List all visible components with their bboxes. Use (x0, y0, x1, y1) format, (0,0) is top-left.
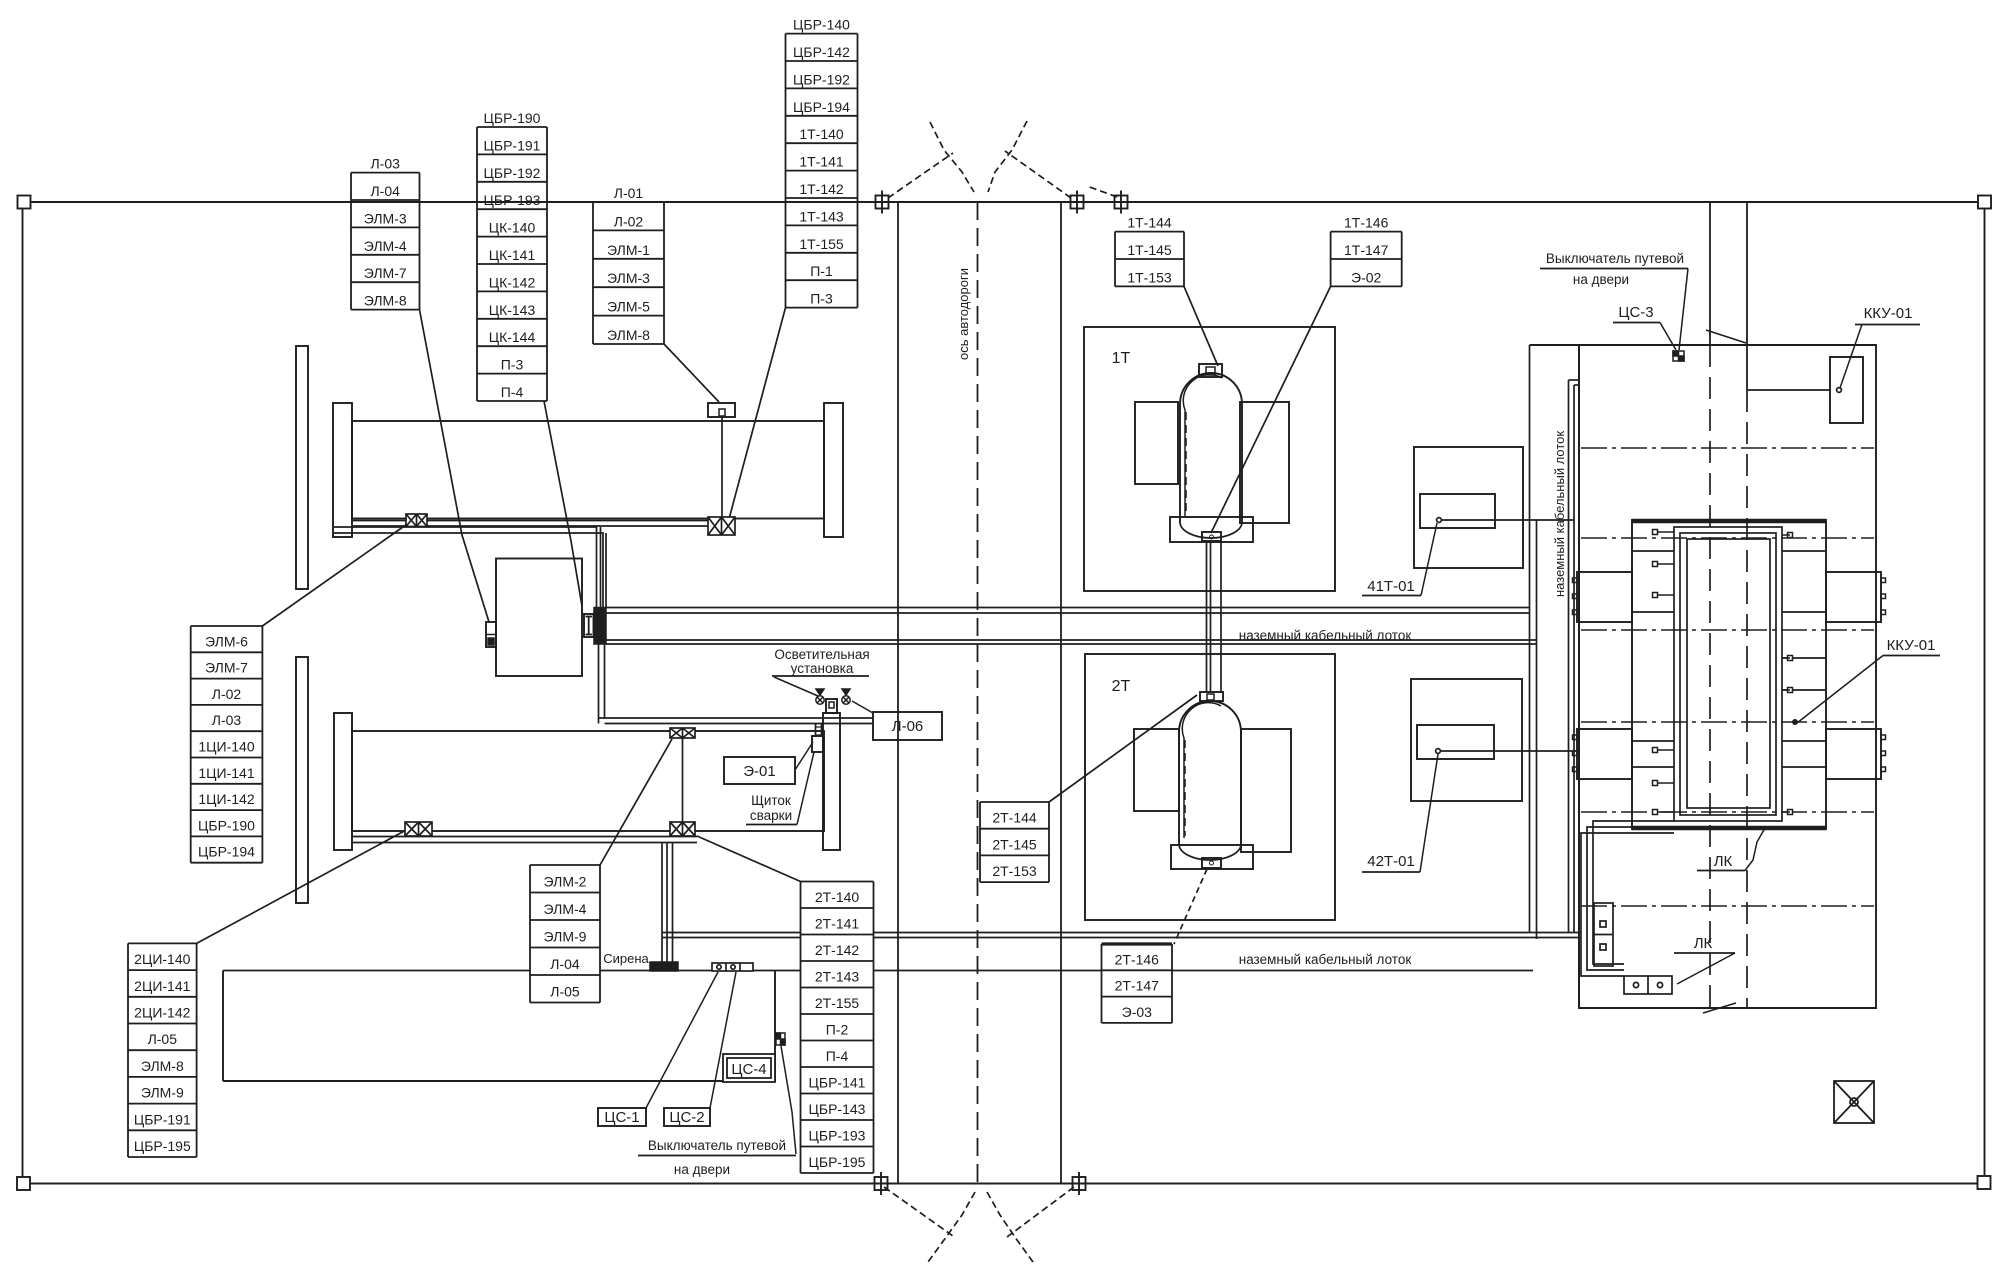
entry road edge right solid (1746, 202, 1748, 390)
lighting title underline (772, 675, 869, 677)
leader Л-06 (852, 701, 873, 713)
cable entry insert (584, 614, 594, 637)
svg-text:ЦС-3: ЦС-3 (1618, 304, 1653, 321)
valve V3 (405, 822, 432, 836)
KKU leader dot (1792, 719, 1798, 725)
ground tray G lower (662, 937, 1581, 939)
leader S10 to tank 1T base box (1211, 286, 1331, 533)
leader ЦС-3 (1660, 323, 1676, 351)
KKU sensor R3 (1782, 688, 1793, 693)
svg-text:П-3: П-3 (501, 357, 524, 373)
tray D riser left (598, 644, 600, 724)
KKU axis line 1 (1581, 447, 1874, 449)
KKU right box upper (1826, 572, 1881, 622)
KKU sensor L3 (1653, 593, 1675, 598)
svg-text:ЦБР-195: ЦБР-195 (809, 1154, 866, 1170)
cable entry insert cap1 (586, 616, 593, 618)
label box ЦС-1 (598, 1108, 646, 1126)
tank 2T vessel outline (1179, 701, 1241, 845)
tray under T2 upper (352, 836, 697, 838)
siren riser 1 (661, 843, 663, 963)
svg-text:ЦБР-193: ЦБР-193 (809, 1128, 866, 1144)
svg-text:ЦБР-194: ЦБР-194 (793, 99, 850, 115)
pump house left box divider (486, 634, 496, 636)
label ККУ-01 top underline (1855, 324, 1920, 326)
svg-text:1Т-143: 1Т-143 (799, 208, 844, 224)
svg-text:Л-05: Л-05 (550, 984, 580, 1000)
station 42T tap circle (1436, 749, 1441, 754)
cable list S3 (Л-01 group) (593, 202, 664, 344)
svg-text:П-4: П-4 (501, 384, 524, 400)
entry road edge left dashed (1709, 345, 1711, 1008)
svg-text:Сирена: Сирена (603, 951, 649, 966)
tank 2T vessel inner wall (1182, 703, 1221, 838)
svg-text:2Т-144: 2Т-144 (992, 810, 1037, 826)
svg-text:Э-03: Э-03 (1122, 1004, 1153, 1020)
site border right (1984, 209, 1986, 1176)
tray D drop to weld box b (821, 724, 823, 738)
border marker M5 (1068, 1172, 1091, 1195)
leader ККУ-01 right (1797, 656, 1883, 724)
svg-text:ЦБР-143: ЦБР-143 (809, 1101, 866, 1117)
junction box on T1 inner mark (719, 409, 725, 416)
KKU control box tap (1837, 388, 1842, 393)
svg-text:Л-01: Л-01 (614, 185, 644, 201)
leader S7 to valve V4 (600, 739, 672, 865)
site border top (31, 201, 1978, 203)
svg-text:ЦС-1: ЦС-1 (604, 1109, 639, 1126)
valve V2 (708, 517, 735, 535)
tank T2 left flange (334, 713, 352, 850)
svg-text:Л-04: Л-04 (550, 956, 580, 972)
wire 42T to building (1440, 750, 1579, 752)
cable list S12 background (1102, 944, 1173, 1023)
KKU sensor R4 (1782, 810, 1793, 815)
tray under T1 lower (352, 525, 722, 527)
tray T1-to-block line4 (605, 533, 607, 608)
KKU right box upper pin 2 (1881, 594, 1886, 599)
tank 1T right pad (1240, 402, 1289, 523)
cable list S8 (2Т-140 group) (801, 882, 874, 1174)
tank 2T base box (1202, 858, 1221, 868)
svg-text:2Т-143: 2Т-143 (815, 969, 860, 985)
cable list S6 (2ЦИ-140 group) (128, 943, 197, 1157)
border marker M3 (1110, 191, 1133, 214)
corner marker bottom-right (1978, 1176, 1991, 1189)
svg-text:1ЦИ-141: 1ЦИ-141 (198, 765, 254, 781)
tank 2T base box circle (1210, 861, 1214, 865)
svg-text:ЦБР-194: ЦБР-194 (198, 844, 255, 860)
border marker M1 (871, 191, 894, 214)
cable entry block (594, 608, 606, 645)
ground tray A upper (606, 607, 1530, 609)
road edge right (1060, 202, 1062, 1183)
svg-text:ЭЛМ-2: ЭЛМ-2 (544, 874, 587, 890)
KKU axis line 3 (1581, 629, 1874, 631)
KKU building outline (1530, 345, 1877, 1008)
entry road edge left solid (1709, 202, 1711, 345)
svg-text:2ЦИ-142: 2ЦИ-142 (134, 1005, 190, 1021)
ground tray B lower (606, 643, 1537, 645)
svg-text:ЛК: ЛК (1714, 853, 1733, 870)
svg-text:ККУ-01: ККУ-01 (1864, 305, 1913, 322)
label ЦС-3 underline (1613, 322, 1660, 324)
leader door switch top (1679, 269, 1688, 351)
KKU left box upper pin 1 (1573, 578, 1578, 583)
KKU axis line 6 (1581, 905, 1874, 907)
label 42T-01 underline (1362, 871, 1420, 873)
svg-text:Л-05: Л-05 (148, 1031, 178, 1047)
tank 2T gauge dashed (1184, 740, 1186, 836)
KKU axis line 2 (1581, 537, 1874, 539)
siren riser 2 (666, 843, 668, 963)
KKU building left edge (1578, 345, 1580, 1008)
site border bottom (30, 1183, 1978, 1185)
stem V4-V5 (682, 738, 684, 822)
svg-text:Л-02: Л-02 (614, 213, 644, 229)
svg-text:наземный кабельный лоток: наземный кабельный лоток (1239, 628, 1412, 643)
wire 41T to trunk (1441, 519, 1574, 521)
road axis dashed (977, 202, 979, 1183)
cable list S1 (Л-03 group) (351, 173, 420, 310)
KKU right box lower (1826, 729, 1881, 779)
leader S6 to valve V3 (197, 829, 408, 943)
svg-text:ЦБР-195: ЦБР-195 (134, 1138, 191, 1154)
cable list S7 background (530, 865, 600, 1003)
svg-text:1Т-153: 1Т-153 (1127, 269, 1172, 285)
svg-text:ЦБР-190: ЦБР-190 (198, 817, 255, 833)
leader S1 to pump house box (420, 310, 490, 622)
lighting fixture base (826, 699, 837, 713)
KKU control box (1830, 357, 1863, 423)
tank 2T left pad (1134, 729, 1179, 811)
cable list S8 background (801, 882, 874, 1174)
tray T1-to-block inner (334, 533, 603, 608)
svg-text:ЦБР-192: ЦБР-192 (793, 71, 850, 87)
leader Э-01 (795, 742, 813, 770)
switch box CS1-CS2 (712, 963, 753, 971)
trunk tray b (1536, 520, 1538, 939)
tank 1T dome box (1199, 364, 1222, 377)
lower building bottom (223, 1080, 775, 1082)
svg-text:установка: установка (791, 661, 854, 676)
leader ЛК 1 (1745, 828, 1765, 871)
road leader top M3 (1087, 186, 1117, 197)
KKU right box upper pin 1 (1881, 578, 1886, 583)
lighting fixture base mark (829, 702, 834, 708)
trunk tray a (1529, 345, 1531, 933)
svg-text:ЭЛМ-8: ЭЛМ-8 (607, 327, 650, 343)
leader door switch to text (781, 1046, 796, 1154)
building 2T (1085, 654, 1335, 920)
leader S11 to tank 2T dome box (1049, 695, 1197, 802)
station 41T outer (1414, 447, 1523, 568)
wall bar 1 (296, 346, 308, 589)
tank T2 body (352, 731, 824, 831)
svg-text:2Т-146: 2Т-146 (1115, 951, 1160, 967)
svg-text:П-4: П-4 (826, 1048, 849, 1064)
door switch ЦС-3 (1673, 351, 1684, 361)
tank 1T vessel outline (1180, 373, 1242, 523)
svg-text:1Т: 1Т (1112, 350, 1131, 367)
cable list S4 (ЦБР-140 group) (786, 34, 858, 308)
yard tray b (1573, 385, 1575, 933)
svg-text:ЭЛМ-4: ЭЛМ-4 (364, 238, 407, 254)
cable list S5 (ЭЛМ-6 group) (191, 626, 263, 863)
svg-text:на двери: на двери (1573, 272, 1629, 287)
road curve top-right (988, 121, 1027, 192)
riser 1T b (1210, 542, 1212, 692)
welding panel box (812, 736, 823, 752)
KKU sensor R2 (1782, 656, 1793, 661)
svg-text:ЛК: ЛК (1694, 935, 1713, 952)
svg-text:ЦК-140: ЦК-140 (489, 220, 536, 236)
KKU right box lower pin 2 (1881, 751, 1886, 756)
label ЛК 1 underline (1697, 870, 1745, 872)
svg-text:1Т-147: 1Т-147 (1344, 242, 1389, 258)
svg-text:ЭЛМ-6: ЭЛМ-6 (205, 633, 248, 649)
tank 1T vessel inner wall (1183, 375, 1222, 516)
leader S5 to valve V1 (262, 522, 410, 626)
svg-text:П-2: П-2 (826, 1022, 849, 1038)
border marker M4 (870, 1172, 893, 1195)
site fence line (223, 970, 1533, 972)
KKU left box lower pin 3 (1573, 767, 1578, 772)
leader ЦС-2 (710, 972, 736, 1108)
KKU axis line 5 (1581, 811, 1874, 813)
tray D lower (605, 723, 874, 725)
cable list S11 (2Т-144 group) (980, 802, 1049, 882)
entry road gate mark (1706, 330, 1746, 343)
tank 1T base (1170, 517, 1253, 542)
svg-text:Л-03: Л-03 (212, 712, 242, 728)
leader welding panel (797, 752, 814, 825)
yard tray cap b (1574, 384, 1579, 386)
svg-text:на двери: на двери (674, 1162, 730, 1177)
svg-text:2Т-153: 2Т-153 (992, 863, 1037, 879)
door switch title underline (638, 1155, 796, 1157)
tank T1 body (352, 421, 824, 519)
svg-text:1Т-144: 1Т-144 (1127, 215, 1172, 231)
tank T2 right flange (823, 713, 840, 850)
leader S8 to valve V5 (697, 836, 801, 882)
svg-text:2Т-155: 2Т-155 (815, 995, 860, 1011)
door switch top underline (1540, 268, 1688, 270)
ground tray B upper (606, 639, 1537, 641)
station 41T inner (1420, 494, 1495, 528)
corner marker top-right (1978, 196, 1991, 209)
lighting fixture 1 (816, 689, 824, 704)
tank T1 right flange (824, 403, 843, 537)
KKU left box upper pin 2 (1573, 594, 1578, 599)
svg-text:ЭЛМ-4: ЭЛМ-4 (544, 901, 587, 917)
svg-text:Выключатель путевой: Выключатель путевой (648, 1138, 786, 1153)
tray T1-to-block outer (334, 527, 597, 608)
svg-text:ЦК-141: ЦК-141 (489, 247, 536, 263)
label ККУ-01 right underline (1883, 655, 1940, 657)
svg-text:ЦС-4: ЦС-4 (731, 1061, 766, 1078)
svg-text:Осветительная: Осветительная (774, 647, 869, 662)
label box ЦС-2 (664, 1108, 710, 1126)
KKU sensor R1 (1782, 533, 1793, 538)
lower building left (222, 971, 224, 1082)
svg-text:1ЦИ-142: 1ЦИ-142 (198, 791, 254, 807)
leader S4 to valve V2 (729, 308, 786, 519)
svg-text:ЭЛМ-3: ЭЛМ-3 (364, 210, 407, 226)
svg-text:ЦБР-190: ЦБР-190 (484, 110, 541, 126)
svg-text:2Т-147: 2Т-147 (1115, 978, 1160, 994)
KKU L-tray 2 (1587, 827, 1674, 970)
welding panel underline (746, 824, 797, 826)
tank 2T bottom dome (1179, 844, 1241, 860)
leader S9 to tank 1T dome box (1184, 286, 1218, 366)
leader S3 to tank1 top box (664, 344, 719, 402)
KKU tray loop inner (1687, 539, 1770, 808)
svg-text:Л-04: Л-04 (370, 183, 400, 199)
station 41T tap circle (1437, 518, 1442, 523)
svg-text:ЭЛМ-7: ЭЛМ-7 (364, 265, 407, 281)
wire KKU box (1747, 389, 1830, 391)
KKU sensor L6 (1653, 810, 1675, 815)
svg-text:ЦБР-141: ЦБР-141 (809, 1075, 866, 1091)
road leader bottom M5 (1007, 1187, 1074, 1237)
svg-text:ЦК-144: ЦК-144 (489, 329, 536, 345)
svg-text:ЦК-143: ЦК-143 (489, 302, 536, 318)
svg-text:Л-06: Л-06 (892, 718, 924, 735)
stem V2 to top box (721, 417, 723, 517)
svg-text:Л-02: Л-02 (212, 686, 242, 702)
cable entry insert cap2 (586, 634, 593, 636)
svg-text:ККУ-01: ККУ-01 (1887, 637, 1936, 654)
siren riser 3 (672, 843, 674, 963)
svg-text:Выключатель путевой: Выключатель путевой (1546, 251, 1684, 266)
wall bar 2 (296, 657, 308, 903)
svg-text:2Т-141: 2Т-141 (815, 916, 860, 932)
KKU sensor L5 (1653, 781, 1675, 786)
svg-text:П-3: П-3 (810, 291, 833, 307)
svg-text:наземный кабельный лоток: наземный кабельный лоток (1239, 952, 1412, 967)
svg-text:наземный кабельный лоток: наземный кабельный лоток (1552, 431, 1567, 597)
svg-text:ЭЛМ-8: ЭЛМ-8 (141, 1058, 184, 1074)
svg-text:ЭЛМ-7: ЭЛМ-7 (205, 660, 248, 676)
KKU left box upper (1577, 572, 1632, 622)
tank 2T base (1171, 845, 1253, 869)
ladder rungs to welding panel (816, 727, 822, 735)
svg-text:ЦБР-191: ЦБР-191 (484, 137, 541, 153)
svg-text:41Т-01: 41Т-01 (1367, 578, 1415, 595)
KKU axis line 4 (1581, 721, 1874, 723)
svg-text:ЭЛМ-8: ЭЛМ-8 (364, 293, 407, 309)
border marker M2 (1066, 191, 1089, 214)
KKU left box upper pin 3 (1573, 610, 1578, 615)
KKU left box lower pin 1 (1573, 735, 1578, 740)
svg-text:1ЦИ-140: 1ЦИ-140 (198, 739, 254, 755)
road curve bottom-right (987, 1192, 1033, 1262)
site border left (22, 209, 24, 1177)
tank 1T bottom dome (1180, 522, 1242, 538)
svg-text:ЭЛМ-3: ЭЛМ-3 (607, 270, 650, 286)
tray under T1 upper (352, 520, 722, 522)
leader 42T-01 (1420, 754, 1438, 872)
svg-text:2ЦИ-140: 2ЦИ-140 (134, 951, 190, 967)
building 1T (1084, 327, 1335, 591)
svg-text:2Т-140: 2Т-140 (815, 889, 860, 905)
svg-text:2Т-142: 2Т-142 (815, 942, 860, 958)
tray D drop to weld box a (815, 724, 817, 738)
corner marker top-left (18, 196, 31, 209)
riser 1T a (1206, 542, 1208, 692)
svg-text:1Т-142: 1Т-142 (799, 181, 844, 197)
tank 1T base box circle (1210, 535, 1214, 539)
svg-text:ЭЛМ-9: ЭЛМ-9 (141, 1085, 184, 1101)
svg-text:ЦС-2: ЦС-2 (669, 1109, 704, 1126)
svg-text:42Т-01: 42Т-01 (1367, 853, 1415, 870)
svg-text:2ЦИ-141: 2ЦИ-141 (134, 978, 190, 994)
svg-text:1Т-145: 1Т-145 (1127, 242, 1172, 258)
svg-text:2Т: 2Т (1112, 678, 1131, 695)
svg-text:1Т-146: 1Т-146 (1344, 215, 1389, 231)
ground tray G upper (662, 932, 1581, 934)
leader ЛК 2 (1677, 953, 1735, 984)
tank 1T dome box mark (1206, 367, 1215, 375)
svg-text:2Т-145: 2Т-145 (992, 836, 1037, 852)
leader 41T-01 (1421, 523, 1437, 596)
svg-text:ЦБР-191: ЦБР-191 (134, 1111, 191, 1127)
svg-text:ЭЛМ-9: ЭЛМ-9 (544, 929, 587, 945)
tank 1T left pad (1135, 402, 1178, 484)
leader ЦС-1 (646, 972, 718, 1108)
label 41T-01 underline (1362, 595, 1421, 597)
door switch on lower building (776, 1033, 785, 1045)
label box ЦС-4 (723, 1054, 775, 1082)
tank 2T dome box mark (1207, 694, 1214, 700)
label ЛК 2 underline (1674, 952, 1735, 954)
svg-text:1Т-140: 1Т-140 (799, 126, 844, 142)
tray D riser right (604, 644, 606, 718)
road curve top-left (930, 122, 974, 192)
tank 1T gauge dashed (1185, 412, 1187, 514)
KKU unit frame (1632, 519, 1826, 830)
svg-text:ЦБР-140: ЦБР-140 (793, 17, 850, 33)
svg-text:Э-02: Э-02 (1351, 269, 1382, 285)
tray under T2 lower (352, 842, 697, 844)
KKU sensor L4 (1653, 748, 1675, 753)
road edge left (897, 202, 899, 1183)
station 42T outer (1411, 679, 1522, 801)
tray T1-to-block line3 (600, 527, 602, 608)
siren block (650, 962, 678, 971)
label box Э-01 (724, 757, 795, 784)
svg-text:ЦБР-192: ЦБР-192 (484, 165, 541, 181)
lighting fixture 2 (842, 689, 850, 704)
station 42T inner (1417, 725, 1494, 759)
tray D upper (599, 717, 874, 719)
KKU L-tray 3 (1581, 833, 1674, 976)
leader S2 to cable entry block (544, 401, 582, 606)
leader lighting (774, 677, 818, 696)
svg-text:ЭЛМ-1: ЭЛМ-1 (607, 242, 650, 258)
svg-text:ЦБР-193: ЦБР-193 (484, 192, 541, 208)
pump house left box (486, 622, 496, 647)
cable list S10 (1Т-146 group) (1331, 232, 1402, 287)
riser 1T c (1220, 542, 1222, 692)
svg-text:сварки: сварки (750, 808, 792, 823)
leader S12 from tank 2T base box (1174, 869, 1207, 944)
svg-text:П-1: П-1 (810, 263, 833, 279)
svg-text:ЦК-142: ЦК-142 (489, 274, 536, 290)
KKU tray loop mid (1680, 533, 1776, 815)
svg-text:Л-03: Л-03 (370, 156, 400, 172)
